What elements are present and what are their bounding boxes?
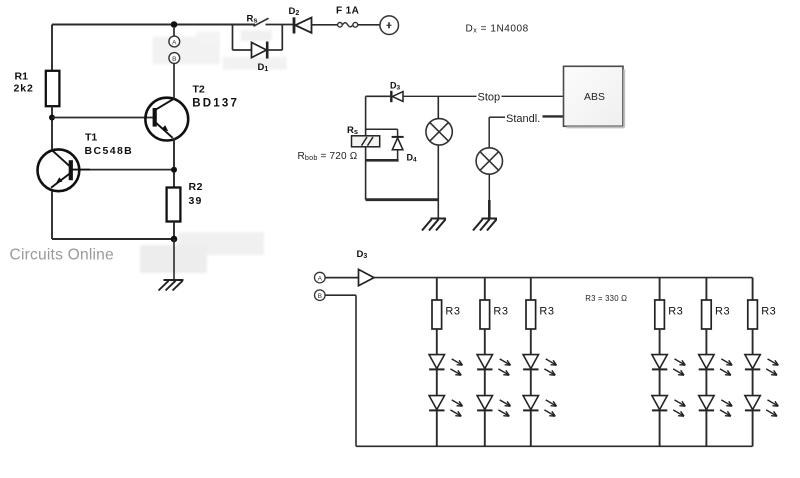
wire node to T2 base bbox=[52, 117, 154, 119]
wire terminal A to D3 bbox=[325, 277, 358, 279]
wire T1 emitter down bbox=[51, 192, 53, 240]
LED 2 (column 4) bbox=[652, 396, 685, 417]
junction T2 emitter / T1 base / R2 bbox=[171, 167, 177, 173]
svg-text:R3 = 330 Ω: R3 = 330 Ω bbox=[585, 294, 627, 303]
wire R3 to LED1 column 6 bbox=[752, 329, 754, 354]
wire R1 top lead bbox=[51, 25, 53, 71]
battery positive terminal bbox=[380, 16, 399, 35]
svg-text:B: B bbox=[318, 293, 322, 300]
LED 1 (column 3) bbox=[523, 355, 556, 376]
wire R3 to LED1 column 5 bbox=[705, 329, 707, 354]
wire D4 top branch bbox=[366, 128, 398, 130]
wire LED1 to LED2 column 5 bbox=[705, 369, 707, 395]
svg-text:R2: R2 bbox=[189, 181, 204, 193]
diode D2 bbox=[294, 17, 312, 33]
wire R3 to LED1 column 4 bbox=[659, 329, 661, 354]
junction top rail / terminal A branch bbox=[171, 21, 178, 28]
wire R2 bottom to rail bbox=[173, 222, 175, 240]
wire LED1 to LED2 column 1 bbox=[436, 369, 438, 395]
wire D1 branch left down bbox=[232, 25, 234, 51]
svg-text:BD137: BD137 bbox=[192, 98, 239, 110]
wire D4 cathode lead bbox=[397, 129, 399, 136]
wire standlight lamp down bbox=[488, 174, 490, 200]
resistor R3 (column 6) bbox=[748, 300, 758, 329]
wire D1 cathode bbox=[267, 49, 282, 51]
wire to D3 cathode bbox=[366, 95, 391, 97]
svg-text:R1: R1 bbox=[15, 71, 29, 83]
wire LED2 to bottom rail column 5 bbox=[705, 410, 707, 446]
svg-text:T1: T1 bbox=[85, 131, 97, 143]
wire column 1 to R3 bbox=[436, 278, 438, 300]
LED 2 (column 2) bbox=[477, 396, 510, 417]
relay coil Rs bbox=[352, 136, 380, 147]
wire D4 bottom branch (thick) bbox=[366, 159, 399, 162]
terminal B (driver output) bbox=[169, 53, 180, 64]
svg-text:ABS: ABS bbox=[584, 92, 605, 103]
ground (stop lamp) bbox=[422, 219, 446, 231]
wire LED2 to bottom rail column 6 bbox=[752, 410, 754, 446]
transistor T2 BD137 bbox=[145, 98, 188, 141]
ABS module box bbox=[564, 66, 625, 127]
wire LED1 to LED2 column 3 bbox=[530, 369, 532, 395]
wire LED array top rail bbox=[374, 277, 753, 279]
wire R3 to LED1 column 2 bbox=[484, 329, 486, 354]
LED 1 (column 1) bbox=[429, 355, 462, 376]
resistor R3 (column 2) bbox=[480, 300, 490, 329]
wire R1 bottom to T1 collector bbox=[51, 106, 53, 150]
svg-text:T2: T2 bbox=[193, 84, 205, 96]
wire switch to D2 bbox=[266, 24, 294, 26]
wire column 3 to R3 bbox=[530, 278, 532, 300]
wire D4 anode lead bbox=[397, 150, 399, 161]
svg-text:Stop: Stop bbox=[478, 92, 501, 104]
svg-text:Circuits Online: Circuits Online bbox=[10, 246, 114, 263]
ground (driver circuit) bbox=[159, 280, 184, 291]
wire LED array bottom rail bbox=[356, 445, 753, 447]
svg-text:R3: R3 bbox=[493, 306, 508, 318]
lamp (stop light) bbox=[426, 119, 452, 145]
wire LED1 to LED2 column 2 bbox=[484, 369, 486, 395]
LED 1 (column 2) bbox=[477, 355, 510, 376]
wire terminal B to T2 collector bbox=[173, 63, 175, 99]
wire T1 base to node bbox=[90, 169, 174, 171]
wire to stop lamp bbox=[437, 96, 439, 118]
svg-text:R3: R3 bbox=[445, 306, 460, 318]
wire LED1 to LED2 column 4 bbox=[659, 369, 661, 395]
svg-text:Rs: Rs bbox=[347, 125, 358, 136]
resistor R1 bbox=[46, 71, 60, 106]
wire R3 to LED1 column 1 bbox=[436, 329, 438, 354]
LED 2 (column 1) bbox=[429, 396, 462, 417]
resistor R3 (column 1) bbox=[432, 300, 442, 329]
wire terminal B out bbox=[325, 294, 356, 296]
wire standlight corner to label bbox=[489, 116, 505, 118]
wire rail to terminal A bbox=[173, 28, 175, 36]
resistor R3 (column 4) bbox=[655, 300, 665, 329]
wire relay branch upper bbox=[365, 96, 367, 136]
svg-text:Standl.: Standl. bbox=[506, 113, 540, 125]
diode D1 bbox=[252, 42, 268, 59]
wire stop lamp to ground bbox=[437, 145, 439, 218]
svg-text:BC548B: BC548B bbox=[85, 145, 134, 157]
LED 1 (column 6) bbox=[745, 355, 778, 376]
label T1 BC548B bbox=[85, 131, 134, 157]
label T2 BD137 bbox=[192, 84, 239, 110]
resistor R2 bbox=[167, 188, 181, 222]
diode D3 (array feed) bbox=[359, 269, 375, 285]
svg-text:B: B bbox=[172, 56, 176, 63]
svg-text:R3: R3 bbox=[715, 306, 730, 318]
junction R1 / T2 base bbox=[49, 115, 55, 121]
svg-text:R3: R3 bbox=[668, 306, 683, 318]
fuse F1A bbox=[338, 22, 358, 27]
resistor R3 (column 3) bbox=[526, 300, 536, 329]
svg-text:R3: R3 bbox=[761, 306, 776, 318]
LED 1 (column 4) bbox=[652, 355, 685, 376]
wire LED2 to bottom rail column 1 bbox=[436, 410, 438, 446]
diode D3 (relay feed) bbox=[391, 91, 403, 102]
svg-text:A: A bbox=[318, 275, 323, 282]
wire column 5 to R3 bbox=[705, 278, 707, 300]
svg-text:R3: R3 bbox=[539, 306, 554, 318]
svg-text:A: A bbox=[172, 39, 177, 46]
svg-text:Rbob = 720 Ω: Rbob = 720 Ω bbox=[298, 151, 358, 162]
wire bottom rail of driver bbox=[52, 238, 174, 240]
label R1 2k2 bbox=[14, 71, 34, 95]
LED 2 (column 5) bbox=[699, 396, 732, 417]
wire LED2 to bottom rail column 3 bbox=[530, 410, 532, 446]
wire top rail bbox=[52, 24, 255, 26]
wire LED1 to LED2 column 6 bbox=[752, 369, 754, 395]
wire D1 branch right up bbox=[281, 25, 283, 51]
LED 2 (column 3) bbox=[523, 396, 556, 417]
wire LED2 to bottom rail column 2 bbox=[484, 410, 486, 446]
svg-text:2k2: 2k2 bbox=[14, 83, 34, 95]
resistor R3 (column 5) bbox=[702, 300, 712, 329]
wire relay bottom bbox=[365, 147, 367, 200]
terminal A (LED array input) bbox=[315, 272, 326, 283]
terminal B (LED array input) bbox=[315, 290, 326, 301]
svg-text:F 1A: F 1A bbox=[336, 6, 359, 17]
terminal A (driver output) bbox=[169, 36, 180, 47]
wire to D1 anode bbox=[233, 49, 252, 51]
LED 2 (column 6) bbox=[745, 396, 778, 417]
wire T2 emitter to R2 bbox=[173, 138, 175, 188]
transistor T1 BC548B bbox=[38, 149, 91, 191]
wire stub to ground (thick) bbox=[488, 200, 491, 218]
label R2 39 bbox=[189, 181, 204, 207]
wire column 6 to R3 bbox=[752, 278, 754, 300]
wire R3 to LED1 column 3 bbox=[530, 329, 532, 354]
wire D3 to Stop node bbox=[403, 95, 477, 97]
ground (standlight lamp) bbox=[473, 219, 497, 231]
junction bottom rail / ground bbox=[171, 236, 178, 243]
wire down to standlight lamp bbox=[488, 117, 490, 148]
wire to ground bbox=[173, 239, 175, 280]
wire column 4 to R3 bbox=[659, 278, 661, 300]
wire LED2 to bottom rail column 4 bbox=[659, 410, 661, 446]
switch Rs (lever) bbox=[254, 18, 269, 26]
wire relay to lamp ground rail (thick) bbox=[366, 198, 439, 201]
wire D2 to fuse bbox=[312, 24, 338, 26]
LED 1 (column 5) bbox=[699, 355, 732, 376]
wire Standl. to ABS (thick) bbox=[543, 115, 564, 117]
svg-text:39: 39 bbox=[189, 195, 203, 207]
wire LED array left return bbox=[355, 295, 357, 446]
wire column 2 to R3 bbox=[484, 278, 486, 300]
wire fuse to battery bbox=[358, 24, 380, 26]
lamp (standlight) bbox=[476, 148, 502, 174]
wire Stop to ABS bbox=[502, 95, 564, 97]
svg-text:Rs: Rs bbox=[247, 14, 258, 25]
